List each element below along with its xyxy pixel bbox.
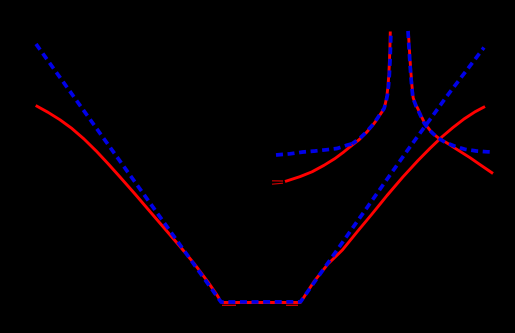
red pole curve right branch (408, 31, 493, 174)
red thin dip left of flat bottom (222, 304, 236, 306)
blue dashed pole curve left branch (flat part) (276, 144, 352, 155)
blue dashed pole curve left branch (ascent) (352, 32, 391, 144)
red thin dip right of flat bottom (286, 304, 298, 306)
red solid main V curve (36, 106, 485, 303)
red pole curve thin start fork (272, 180, 283, 182)
blue dashed main V curve (36, 44, 484, 302)
blue dashed pole curve right branch (408, 31, 494, 152)
red pole curve left branch (285, 32, 390, 182)
